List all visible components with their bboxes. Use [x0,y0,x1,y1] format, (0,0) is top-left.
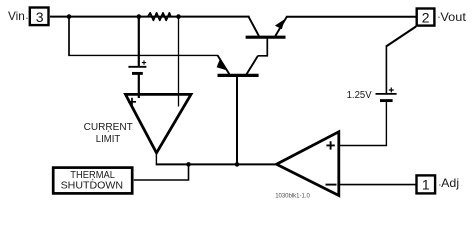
transistor Q1 (NPN pass) base bar [246,36,286,39]
wire: op-amp - input to Adj box [340,184,416,186]
transistor Q2 base bar [218,74,259,77]
svg-text:Vout: Vout [440,10,466,24]
wire: battery bottom into comparator + input [138,74,140,98]
wire: thermal shutdown output to bus [134,164,189,180]
wire: op-amp + input horizontal [339,145,387,147]
comparator: CURRENT LIMIT triangle pointing down [126,94,192,152]
svg-text:1: 1 [422,177,430,193]
op-amp - symbol [326,184,337,186]
wire: drive bus to error-amp output apex [156,163,276,165]
wire: vertical below reference to op-amp + input [385,101,387,145]
label CURRENT LIMIT [84,121,134,145]
wire: Q2 base lead vertical [236,77,238,164]
node: tiny speck before Adj label [439,184,441,186]
node: junction dot Q2 base tap [235,162,240,167]
node: tiny speck after Vin label [26,18,28,20]
port box pin 3 (Vin) [30,8,49,26]
wire: thin lead from dot3 into comparator - input [178,17,180,107]
svg-text:3: 3 [36,9,44,25]
wire: output rail from Q1 emitter to box 2 [286,16,417,18]
wire: jog between Q2 collector and Q1 base [258,38,267,56]
wire: vertical above 1.25V reference [385,45,387,93]
port box pin 2 (Vout) [417,9,435,26]
transistor Q1 emitter diagonal with arrow to output [275,17,287,36]
wire: diagonal from box 2 corner to reference branch [386,27,416,47]
wire: comparator apex stub to drive bus [155,154,157,165]
transistor Q2 (PNP driver) emitter diagonal with arrow into base bar [217,55,230,74]
wire: vertical drop from dot x=69 [68,17,70,56]
svg-text:1.25V: 1.25V [347,90,372,101]
op-amp + symbol [326,141,334,149]
node: junction dot thermal shutdown tap [186,162,191,167]
node: tiny speck before Vout label [438,16,440,18]
svg-text:Adj: Adj [441,176,459,190]
op-amp (error amplifier) triangle pointing left [277,132,339,196]
svg-text:LIMIT: LIMIT [96,133,121,145]
svg-text:SHUTDOWN: SHUTDOWN [61,181,123,192]
battery: current limit reference offset (plates and + mark) [128,60,146,73]
wire: horizontal to Q2 emitter [68,54,218,56]
resistor (zigzag) [148,13,171,20]
battery: 1.25V reference (plates and + mark) [376,88,397,101]
transistor Q2 collector diagonal [247,56,258,75]
svg-text:1030blk1-1.0: 1030blk1-1.0 [275,192,310,199]
wire: thick lead from rail dot2 down to current-limit battery [138,17,140,67]
svg-text:2: 2 [422,9,430,25]
comparator + symbol [128,98,136,106]
transistor Q1 collector diagonal [249,17,259,36]
node: tiny speck below CURRENT label [108,130,110,132]
node: junction dot at resistor right [176,14,181,19]
wire: input rail from box 3 to Q1 collector [50,16,250,18]
node: junction dot at resistor left [137,14,142,19]
node: tiny speck above SHUTDOWN label [92,179,94,181]
node: junction dot at x=69 on input rail [67,14,72,19]
port box pin 1 (Adj) [417,175,436,193]
block: THERMAL SHUTDOWN box [53,168,132,194]
svg-text:Vin: Vin [8,9,25,23]
